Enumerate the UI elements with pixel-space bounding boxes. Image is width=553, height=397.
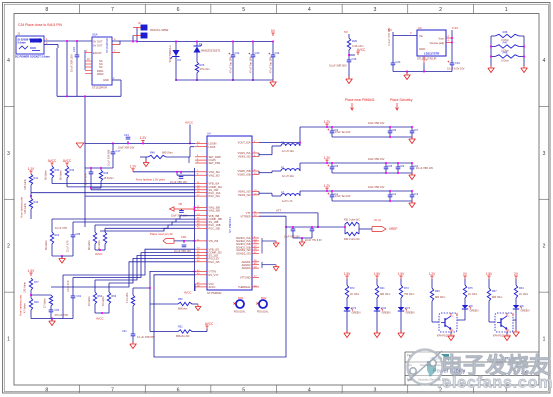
svg-text:U3: U3	[418, 26, 422, 30]
svg-text:R32 0 ohm,NC: R32 0 ohm,NC	[344, 238, 360, 241]
svg-text:68 Kohm: 68 Kohm	[98, 240, 101, 250]
svg-text:GREEN: GREEN	[382, 312, 391, 315]
svg-text:VFB_ISA: VFB_ISA	[209, 182, 220, 186]
svg-text:56 Kohm: 56 Kohm	[45, 170, 48, 180]
svg-text:68Kohm,NC: 68Kohm,NC	[176, 335, 190, 338]
svg-text:VSW2_IS3: VSW2_IS3	[238, 155, 251, 159]
svg-text:FIDUCIAL: FIDUCIAL	[234, 311, 246, 314]
svg-text:2: 2	[439, 7, 442, 13]
svg-text:R47: R47	[503, 40, 508, 44]
svg-text:R34: R34	[519, 287, 524, 290]
svg-text:R41: R41	[380, 287, 385, 290]
svg-text:GND: GND	[103, 78, 109, 82]
svg-text:12 uF X7R: 12 uF X7R	[55, 227, 67, 230]
svg-text:10uF X5R 10V: 10uF X5R 10V	[368, 122, 385, 125]
svg-text:R48: R48	[104, 172, 109, 175]
svg-text:ST1S10PUR: ST1S10PUR	[105, 38, 109, 53]
svg-text:From farthest point: From farthest point	[20, 295, 23, 316]
svg-text:VIN2_IS3: VIN2_IS3	[209, 173, 221, 177]
svg-text:1.5V: 1.5V	[398, 272, 405, 276]
svg-text:0.1uF X5R 50V: 0.1uF X5R 50V	[108, 149, 111, 166]
svg-text:SGND1_ISB: SGND1_ISB	[236, 242, 251, 246]
svg-text:2: 2	[7, 244, 10, 250]
svg-text:GREEN: GREEN	[406, 312, 415, 315]
svg-text:68 Kohm: 68 Kohm	[60, 170, 63, 180]
svg-text:AVCC: AVCC	[205, 322, 214, 326]
svg-text:1uH 1.7A: 1uH 1.7A	[282, 200, 293, 203]
svg-text:R73: R73	[404, 287, 409, 290]
svg-text:1K Ohm: 1K Ohm	[519, 293, 528, 296]
svg-text:7: 7	[111, 388, 114, 394]
svg-text:C90: C90	[55, 309, 60, 312]
svg-text:6: 6	[177, 7, 180, 13]
svg-text:1K Ohm: 1K Ohm	[468, 293, 477, 296]
svg-text:D41: D41	[382, 307, 387, 310]
svg-text:4: 4	[308, 7, 311, 13]
svg-text:R41: R41	[34, 177, 39, 180]
svg-text:5V OUT: 5V OUT	[93, 39, 103, 43]
svg-text:68Kohm: 68Kohm	[178, 308, 187, 311]
svg-text:SET_PM1: SET_PM1	[209, 161, 221, 165]
svg-text:PAD2: PAD2	[97, 72, 104, 76]
svg-text:C13: C13	[414, 193, 419, 196]
svg-text:1K Ohm: 1K Ohm	[350, 293, 359, 296]
svg-text:D72: D72	[352, 307, 357, 310]
svg-text:GND: GND	[419, 47, 425, 51]
svg-text:7: 7	[111, 7, 114, 13]
svg-text:EN FLT: EN FLT	[93, 51, 102, 55]
svg-text:1.2V: 1.2V	[429, 272, 436, 276]
svg-text:1: 1	[7, 337, 10, 343]
svg-text:5.0mm: 5.0mm	[18, 41, 27, 45]
svg-text:J1: J1	[17, 32, 21, 36]
svg-text:47 uF Tan 16V: 47 uF Tan 16V	[230, 56, 233, 73]
svg-text:PGC_ISA: PGC_ISA	[209, 194, 221, 198]
svg-text:470 ohm: 470 ohm	[200, 67, 210, 71]
svg-text:4: 4	[543, 58, 546, 64]
svg-text:22 uF X7R: 22 uF X7R	[67, 240, 70, 252]
svg-text:From farthest 1.5V point: From farthest 1.5V point	[136, 178, 165, 182]
svg-text:C34: C34	[72, 47, 76, 52]
svg-text:THERMAL: THERMAL	[238, 285, 251, 289]
svg-text:R67: R67	[492, 290, 497, 293]
svg-text:VIN1_ISA: VIN1_ISA	[209, 170, 221, 174]
svg-text:1.2V: 1.2V	[130, 165, 137, 169]
svg-text:Place near pin 33: Place near pin 33	[150, 232, 173, 236]
svg-text:D73: D73	[406, 307, 411, 310]
svg-text:48 Kohm: 48 Kohm	[88, 296, 91, 306]
svg-text:1.5V: 1.5V	[344, 272, 351, 276]
svg-text:AVCC: AVCC	[48, 159, 57, 163]
svg-text:C36: C36	[352, 57, 357, 61]
svg-text:1: 1	[505, 7, 508, 13]
svg-text:3: 3	[373, 388, 376, 394]
svg-text:U4: U4	[207, 132, 211, 136]
svg-text:C08: C08	[388, 165, 393, 168]
svg-text:680 Ohm: 680 Ohm	[492, 296, 502, 299]
svg-text:1.5V: 1.5V	[28, 269, 35, 273]
svg-text:8: 8	[45, 7, 48, 13]
svg-text:C2b: C2b	[396, 60, 401, 64]
svg-text:R51: R51	[178, 326, 183, 329]
svg-text:1.5V: 1.5V	[374, 272, 381, 276]
svg-text:47 uF Tan 16V: 47 uF Tan 16V	[250, 56, 253, 73]
svg-text:3: 3	[7, 151, 10, 157]
svg-text:VSW1_ISA: VSW1_ISA	[238, 151, 251, 155]
svg-text:AGND3: AGND3	[242, 266, 251, 270]
svg-text:GREEN: GREEN	[521, 310, 530, 313]
svg-text:47 uF Tan 16V: 47 uF Tan 16V	[270, 56, 273, 73]
svg-text:0.1 uF X7R 16V: 0.1 uF X7R 16V	[388, 27, 391, 45]
svg-text:3: 3	[373, 7, 376, 13]
svg-text:R42: R42	[70, 169, 75, 172]
svg-text:47uF Tan 10V: 47uF Tan 10V	[335, 131, 351, 134]
svg-text:R46: R46	[150, 151, 155, 155]
svg-text:U5A: U5A	[92, 33, 98, 37]
svg-text:VSW2_IS3: VSW2_IS3	[238, 193, 251, 197]
svg-text:2: 2	[543, 244, 546, 250]
svg-text:AVCC: AVCC	[95, 252, 103, 256]
svg-text:VTTREF: VTTREF	[240, 214, 251, 218]
svg-text:PGC_IS5: PGC_IS5	[209, 260, 221, 264]
svg-text:ST PM6641: ST PM6641	[228, 217, 232, 233]
svg-text:680 Ohm: 680 Ohm	[435, 296, 445, 299]
svg-text:VSW2_ISB: VSW2_ISB	[238, 173, 251, 177]
svg-text:48 Kohm: 48 Kohm	[102, 296, 105, 306]
svg-text:Place Schottky: Place Schottky	[390, 98, 413, 102]
svg-text:VTTGND: VTTGND	[240, 275, 251, 279]
svg-text:10uF X5R 10V: 10uF X5R 10V	[368, 186, 385, 189]
svg-text:Vtt (1): Vtt (1)	[374, 219, 381, 222]
svg-text:10 uF X5R 25V: 10 uF X5R 25V	[70, 54, 74, 72]
svg-text:PGC_1SA: PGC_1SA	[209, 191, 221, 195]
svg-text:Vin: Vin	[419, 34, 423, 38]
svg-text:C88: C88	[76, 233, 81, 236]
svg-text:R72: R72	[350, 287, 355, 290]
svg-text:12 uH 12A: 12 uH 12A	[282, 150, 294, 153]
svg-text:1.2V: 1.2V	[324, 120, 331, 124]
svg-text:5: 5	[242, 388, 245, 394]
svg-text:0 Ohm: 0 Ohm	[501, 59, 509, 63]
svg-text:OP: OP	[179, 202, 183, 206]
svg-text:R77: R77	[34, 281, 39, 284]
svg-text:VTT: VTT	[276, 209, 282, 213]
svg-text:1.2V: 1.2V	[324, 156, 331, 160]
svg-text:68 Kohm: 68 Kohm	[88, 240, 91, 250]
svg-text:DC POWER SOCKET 2.0mm: DC POWER SOCKET 2.0mm	[15, 55, 50, 59]
svg-text:C3N: C3N	[181, 235, 186, 239]
svg-text:10 uF X7R: 10 uF X7R	[67, 280, 70, 292]
svg-text:0.1 uF X5R 50V: 0.1 uF X5R 50V	[137, 336, 155, 339]
svg-text:R43: R43	[34, 201, 39, 204]
svg-text:R40: R40	[55, 169, 60, 172]
svg-text:C44: C44	[124, 133, 129, 137]
svg-text:RX_VTT: RX_VTT	[209, 273, 219, 277]
svg-text:10uF X5R 10V: 10uF X5R 10V	[368, 158, 385, 161]
svg-text:VSW1_IS3: VSW1_IS3	[238, 190, 251, 194]
svg-text:AVCC: AVCC	[357, 48, 366, 52]
svg-text:MMSZ5231BT1: MMSZ5231BT1	[201, 49, 221, 53]
svg-text:10 uF 6.3V 10V: 10 uF 6.3V 10V	[447, 68, 465, 71]
svg-text:ST PM6641: ST PM6641	[207, 291, 222, 295]
svg-text:C12: C12	[392, 193, 397, 196]
svg-text:C09: C09	[400, 165, 405, 168]
svg-text:Place near PM6641: Place near PM6641	[345, 98, 375, 102]
svg-text:12 uH 12A: 12 uH 12A	[282, 175, 294, 178]
svg-text:0.1uF X5R 50V: 0.1uF X5R 50V	[329, 64, 347, 68]
svg-text:15 Kohm: 15 Kohm	[104, 177, 114, 180]
svg-text:4.7K ohm: 4.7K ohm	[126, 293, 129, 303]
svg-text:R22: R22	[55, 234, 60, 237]
svg-text:10uF X5R 16V: 10uF X5R 16V	[118, 147, 135, 150]
svg-text:FIDUCIAL: FIDUCIAL	[257, 311, 269, 314]
svg-text:R26: R26	[200, 63, 205, 67]
svg-text:1.2V: 1.2V	[28, 167, 35, 171]
svg-text:D4: D4	[178, 58, 182, 62]
svg-text:C33: C33	[255, 51, 260, 55]
svg-text:FID2: FID2	[261, 297, 267, 300]
svg-text:3.3V: 3.3V	[452, 26, 458, 30]
svg-text:AVCC: AVCC	[184, 291, 192, 295]
svg-text:R66: R66	[112, 295, 117, 298]
svg-text:C04: C04	[455, 61, 460, 65]
svg-text:R49: R49	[34, 301, 39, 304]
svg-text:PA2XCL-W8W: PA2XCL-W8W	[150, 28, 169, 32]
svg-text:VIN2_ISB: VIN2_ISB	[209, 208, 221, 212]
svg-text:R75: R75	[468, 287, 473, 290]
svg-text:680 Ohm: 680 Ohm	[162, 151, 173, 155]
svg-text:SGND2_IS3: SGND2_IS3	[236, 252, 251, 256]
svg-text:Vsense (adj): Vsense (adj)	[429, 41, 444, 45]
svg-text:PGC1S3: PGC1S3	[209, 257, 220, 261]
svg-text:C05: C05	[334, 165, 339, 168]
svg-text:C91: C91	[77, 295, 82, 298]
svg-text:4: 4	[7, 58, 10, 64]
svg-text:.elecfans.com: .elecfans.com	[437, 375, 553, 392]
svg-text:27 Kohm: 27 Kohm	[44, 298, 47, 308]
svg-text:R66: R66	[435, 290, 440, 293]
svg-text:750 Ohm: 750 Ohm	[404, 293, 414, 296]
svg-text:GREEN: GREEN	[352, 312, 361, 315]
svg-text:FID1: FID1	[238, 297, 244, 300]
svg-text:SCR TS820A-1: SCR TS820A-1	[169, 45, 172, 63]
svg-text:1.2V: 1.2V	[140, 136, 147, 140]
svg-text:100 Kohm: 100 Kohm	[24, 179, 27, 190]
svg-text:470 pF X7R: 470 pF X7R	[55, 314, 69, 317]
svg-text:4: 4	[308, 388, 311, 394]
svg-text:VTTIN: VTTIN	[209, 270, 217, 274]
svg-text:R64: R64	[98, 295, 103, 298]
svg-text:10 uF X5R 10V: 10 uF X5R 10V	[416, 167, 433, 170]
svg-text:AVCC: AVCC	[209, 285, 216, 289]
svg-text:C34: C34	[275, 51, 280, 55]
svg-text:VFB_ISB: VFB_ISB	[209, 214, 220, 218]
svg-text:VREF: VREF	[389, 227, 398, 231]
svg-text:R29: R29	[352, 39, 357, 43]
svg-text:GREEN: GREEN	[470, 310, 479, 313]
svg-text:47 Kohm: 47 Kohm	[24, 303, 27, 313]
svg-text:100 Kohm: 100 Kohm	[24, 282, 27, 293]
svg-text:C32: C32	[235, 51, 240, 55]
svg-text:47uF Tan 10V: 47uF Tan 10V	[335, 195, 351, 198]
svg-text:6: 6	[177, 388, 180, 394]
svg-text:AVCC: AVCC	[96, 317, 104, 321]
svg-text:ST1S10PUR: ST1S10PUR	[92, 86, 107, 90]
svg-text:680 Ohm: 680 Ohm	[380, 293, 390, 296]
svg-text:R31 0 ohm,NC: R31 0 ohm,NC	[344, 219, 360, 222]
svg-text:5V OUT: 5V OUT	[93, 43, 103, 47]
svg-text:R46: R46	[503, 30, 508, 34]
svg-text:PGC_ISB: PGC_ISB	[209, 226, 221, 230]
svg-text:56 Kohm: 56 Kohm	[45, 240, 48, 250]
svg-text:1.8V: 1.8V	[486, 272, 493, 276]
svg-text:8: 8	[45, 388, 48, 394]
svg-text:5: 5	[242, 7, 245, 13]
svg-text:LD1117STR: LD1117STR	[424, 52, 439, 56]
svg-text:VIN_IS5: VIN_IS5	[209, 239, 219, 243]
svg-text:LDO5: LDO5	[209, 145, 216, 149]
svg-text:5V: 5V	[344, 30, 348, 34]
svg-text:1.2V: 1.2V	[324, 184, 331, 188]
svg-text:NC: NC	[99, 65, 103, 69]
svg-text:C34 Place close to IN4,5 PIN: C34 Place close to IN4,5 PIN	[18, 23, 62, 27]
svg-text:3: 3	[543, 151, 546, 157]
svg-text:VSW0_ISB: VSW0_ISB	[238, 169, 251, 173]
svg-text:VFB_IS3: VFB_IS3	[209, 247, 220, 251]
svg-text:C07: C07	[414, 129, 419, 132]
svg-text:R48: R48	[503, 50, 508, 54]
svg-text:C31: C31	[122, 330, 127, 333]
svg-text:AVCC: AVCC	[63, 159, 72, 163]
svg-text:R50: R50	[178, 298, 183, 301]
svg-text:AVCC: AVCC	[185, 121, 194, 125]
svg-text:Vout: Vout	[438, 37, 444, 41]
svg-text:1: 1	[543, 337, 546, 343]
svg-text:C17: C17	[116, 149, 121, 153]
svg-text:100 Kohm: 100 Kohm	[24, 203, 27, 214]
svg-text:C06: C06	[392, 129, 397, 132]
svg-text:AGND2: AGND2	[242, 263, 251, 267]
svg-text:VOUT_ISA: VOUT_ISA	[238, 141, 251, 145]
svg-text:22 uF Y5V 6.3V: 22 uF Y5V 6.3V	[305, 239, 322, 242]
